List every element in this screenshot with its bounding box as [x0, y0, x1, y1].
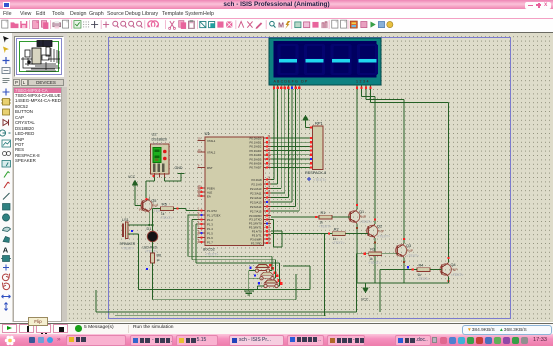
svg-text:EA: EA [207, 194, 211, 198]
svg-text:Q4: Q4 [451, 263, 456, 267]
svg-text:P2.7/A15: P2.7/A15 [250, 209, 262, 213]
svg-text:<TEXT>: <TEXT> [122, 247, 134, 251]
svg-text:P1.2: P1.2 [207, 218, 213, 222]
svg-text:P1.3: P1.3 [207, 222, 213, 226]
svg-text:LS1: LS1 [122, 218, 129, 222]
svg-text:1234: 1234 [356, 80, 370, 84]
svg-text:SPEAKER: SPEAKER [120, 242, 136, 246]
svg-text:P2.4/A12: P2.4/A12 [250, 196, 262, 200]
svg-text:GND: GND [175, 166, 183, 170]
svg-text:P1.6: P1.6 [207, 236, 213, 240]
svg-text:RESPACK-8: RESPACK-8 [305, 171, 326, 175]
svg-text:P2.5/A13: P2.5/A13 [250, 200, 262, 204]
svg-text:P3.7/RD: P3.7/RD [251, 241, 262, 245]
svg-text:<TEXT>: <TEXT> [417, 277, 430, 281]
svg-text:PNP: PNP [406, 249, 414, 253]
svg-text:1k: 1k [157, 258, 161, 262]
svg-text:D1: D1 [147, 227, 152, 231]
svg-text:ABCDEFG DP: ABCDEFG DP [274, 80, 309, 84]
svg-text:VCC: VCC [128, 175, 136, 179]
svg-text:P1.1/T2EX: P1.1/T2EX [207, 213, 221, 217]
svg-text:Q5: Q5 [151, 199, 156, 203]
svg-text:P1.7: P1.7 [207, 240, 213, 244]
svg-text:RST: RST [207, 166, 213, 170]
svg-text:RP1: RP1 [315, 120, 324, 125]
svg-text:A: A [3, 246, 9, 255]
svg-text:XTAL1: XTAL1 [207, 139, 216, 143]
svg-text:<TEXT>: <TEXT> [313, 178, 326, 182]
svg-text:PNP: PNP [139, 208, 147, 212]
svg-text:R2: R2 [334, 227, 339, 231]
svg-text:PNP: PNP [359, 215, 367, 219]
svg-text:P0.7/AD7: P0.7/AD7 [250, 166, 262, 170]
svg-text:R5: R5 [162, 202, 167, 206]
svg-text:<TEXT>: <TEXT> [368, 261, 381, 265]
svg-text:R6: R6 [157, 254, 162, 258]
svg-text:PNP: PNP [377, 230, 385, 234]
svg-text:<TEXT>: <TEXT> [377, 235, 390, 239]
svg-text:P2.2/A10: P2.2/A10 [250, 187, 262, 191]
svg-text:<TEXT>: <TEXT> [160, 216, 173, 220]
svg-text:R3: R3 [370, 248, 375, 252]
svg-text:VCC: VCC [361, 298, 369, 302]
svg-text:P1.5: P1.5 [207, 231, 213, 235]
svg-text:R4: R4 [419, 263, 424, 267]
svg-text:P2.0/A8: P2.0/A8 [252, 178, 262, 182]
svg-text:U2: U2 [152, 132, 158, 137]
svg-text:85: 85 [155, 158, 159, 162]
svg-text:Q2: Q2 [377, 225, 382, 229]
svg-text:<TEXT>: <TEXT> [332, 241, 345, 245]
svg-text:PNP: PNP [151, 204, 159, 208]
svg-text:P2.3/A11: P2.3/A11 [250, 191, 262, 195]
svg-text:DS18B20: DS18B20 [152, 138, 167, 142]
svg-text:PNP: PNP [451, 268, 459, 272]
svg-text:<TEXT>: <TEXT> [152, 142, 163, 146]
svg-text:U1: U1 [205, 131, 211, 136]
svg-text:Q1: Q1 [359, 210, 364, 214]
svg-text:M: M [278, 23, 284, 30]
svg-text:P2.6/A14: P2.6/A14 [250, 205, 262, 209]
svg-text:<TEXT>: <TEXT> [359, 220, 372, 224]
svg-text:<TEXT>: <TEXT> [451, 273, 464, 277]
svg-text:R1: R1 [321, 211, 326, 215]
svg-text:P1.0/T2: P1.0/T2 [207, 209, 217, 213]
svg-text:<TEXT>: <TEXT> [319, 225, 332, 229]
svg-text:P1.4: P1.4 [207, 227, 213, 231]
svg-text:<TEXT>: <TEXT> [406, 254, 419, 258]
svg-text:P2.1/A9: P2.1/A9 [252, 182, 262, 186]
svg-text:80C52: 80C52 [203, 247, 216, 252]
svg-text:XTAL2: XTAL2 [207, 150, 216, 154]
svg-text:Q3: Q3 [406, 244, 411, 248]
